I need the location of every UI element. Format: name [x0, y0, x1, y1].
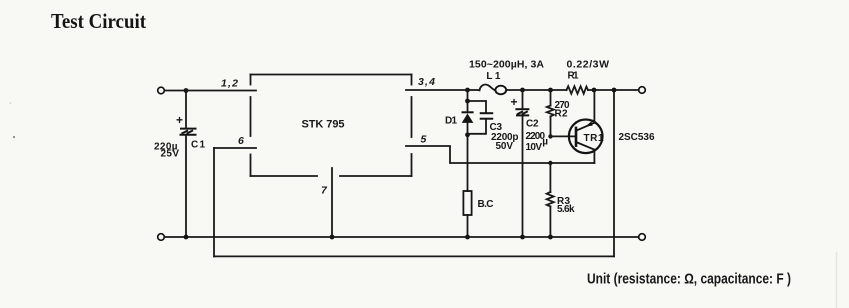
op-amp / hybrid IC U1 STK795 box [251, 75, 412, 177]
wire: feedback line right vertical up to output node [613, 90, 615, 256]
title "Test Circuit" [51, 9, 146, 33]
node: D1 branch / ground rail [465, 235, 470, 240]
wire: ground rail [165, 236, 639, 238]
node: R2 / TR1 base corner [548, 134, 552, 138]
svg-text:10V: 10V [526, 142, 543, 153]
svg-text:TR1: TR1 [584, 133, 604, 144]
svg-text:µ: µ [542, 137, 548, 148]
node: R3 top junction [548, 161, 552, 165]
svg-text:B.C: B.C [478, 199, 494, 210]
label C2 [526, 119, 549, 153]
svg-text:5: 5 [421, 134, 427, 146]
label R1 value [567, 58, 610, 70]
label 2SC536 [619, 132, 655, 143]
output terminal + (open circle) [639, 87, 646, 94]
node: R3 / ground rail [548, 235, 553, 240]
node F (feedback junction) [612, 88, 617, 93]
pin label 1,2 [221, 78, 238, 90]
label D1 [445, 116, 457, 127]
pin label 6 [238, 135, 244, 147]
svg-text:C 2: C 2 [526, 119, 539, 130]
label L1 value [469, 58, 544, 70]
label R2 [555, 100, 570, 120]
svg-text:+: + [511, 95, 518, 109]
wire: L1 to node C [506, 89, 522, 91]
node: C2 / ground rail [520, 235, 525, 240]
wire: IC pin 7 to ground rail [331, 168, 333, 237]
resistor R3 (5.6k) [547, 163, 554, 237]
capacitor C1 (electrolytic 220u 25V) [176, 91, 197, 238]
node: C1 / ground rail [184, 235, 189, 240]
label TR1 [584, 133, 604, 144]
transistor TR1 (2SC536) [569, 90, 603, 163]
svg-text:5.6k: 5.6k [557, 204, 575, 215]
svg-text:L 1: L 1 [486, 71, 500, 82]
svg-text:3,4: 3,4 [418, 76, 435, 88]
svg-text:STK 795: STK 795 [302, 119, 345, 131]
svg-text:50V: 50V [496, 141, 514, 152]
wire: IC pin 3,4 to node B [406, 89, 468, 91]
node: pin7 / ground rail junction [330, 235, 335, 240]
node C (C2 top) [520, 88, 525, 93]
svg-text:Unit (resistance: Ω, capacitan: Unit (resistance: Ω, capacitance: F ) [587, 272, 791, 288]
wire: base wire to TR1 [551, 135, 576, 137]
svg-text:2SC536: 2SC536 [619, 132, 655, 143]
node H (D1/C3 bottom) [465, 132, 470, 137]
node D (R2 top) [548, 88, 553, 93]
capacitor C2 (electrolytic 2200u 10V) [511, 90, 530, 237]
svg-text:C1: C1 [191, 140, 205, 151]
svg-text:0.22/3W: 0.22/3W [567, 58, 610, 70]
wire: IC pin 6 stub [214, 147, 256, 149]
wire: node D to R1 [551, 89, 567, 91]
svg-text:1,2: 1,2 [221, 78, 238, 90]
wire: feedback line bottom horizontal [214, 255, 614, 257]
wire: feedback line pin6 down [213, 148, 215, 256]
svg-text:25V: 25V [161, 149, 180, 160]
wire: input+ to node A [165, 90, 186, 92]
node B (D1 top) [465, 88, 470, 93]
label C1 value [154, 140, 205, 160]
node E (TR1 top junction) [592, 88, 597, 93]
node G (D1/C3 branch) [465, 99, 470, 104]
svg-text:D1: D1 [445, 116, 457, 127]
diode D1 [462, 90, 474, 191]
component B.C (box) [463, 191, 471, 237]
note: units [587, 272, 791, 288]
resistor R2 (270) [547, 90, 554, 136]
pin label 7 [321, 185, 328, 197]
svg-text:6: 6 [238, 135, 244, 147]
wire: IC pin 5 stub [406, 146, 594, 163]
label C3 [490, 122, 519, 152]
svg-text:+: + [176, 113, 183, 127]
wire: node B to L1 [468, 89, 480, 91]
input terminal - (open circle) [158, 234, 165, 241]
label R1 [568, 71, 579, 82]
output terminal - (open circle) [639, 234, 646, 241]
label B.C [478, 199, 494, 210]
resistor R1 (0.22 ohm 3W) [567, 86, 589, 94]
node A (C1 top junction) [184, 88, 189, 93]
wire: node A to IC pin 1,2 [186, 90, 256, 92]
label L1 [486, 71, 500, 82]
label R3 [557, 196, 575, 215]
svg-text:Test Circuit: Test Circuit [51, 9, 146, 33]
svg-text:R1: R1 [568, 71, 579, 82]
pin label 5 [421, 134, 427, 146]
wire: R1 to output terminal [588, 89, 639, 91]
pin label 3,4 [418, 76, 435, 88]
svg-text:R2: R2 [555, 108, 568, 119]
wire: node C to node D [523, 89, 551, 91]
inductor L1 [480, 85, 507, 95]
capacitor C3 (2200p 50V) [468, 101, 494, 134]
svg-text:150~200µH, 3A: 150~200µH, 3A [469, 58, 544, 70]
input terminal + (open circle) [158, 87, 165, 94]
